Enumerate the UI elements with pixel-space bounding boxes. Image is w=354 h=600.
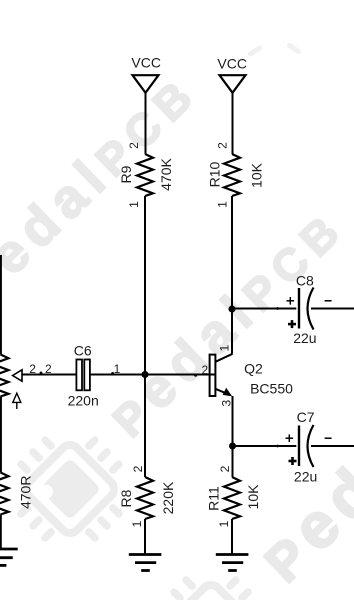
svg-text:2: 2 (131, 465, 145, 472)
capacitor C8 plus sign (287, 297, 295, 305)
svg-text:R10: R10 (206, 161, 222, 187)
wire VCC to R9 (145, 93, 147, 154)
resistor R9 body (137, 154, 153, 196)
svg-text:1: 1 (130, 520, 144, 527)
capacitor C8 minus sign (325, 300, 332, 302)
pin dot pot wiper (40, 372, 43, 375)
transistor Q2 emitter lead (215, 389, 229, 395)
capacitor C7 plus sign (286, 434, 294, 442)
wire 470R to ground (0, 515, 2, 550)
svg-text:2: 2 (218, 465, 232, 472)
capacitor C7 plus plate (298, 426, 300, 467)
capacitor C6 left plate (76, 360, 82, 391)
wire C7 row right (311, 445, 354, 447)
capacitor C7 curved plate (308, 425, 314, 467)
capacitor C8 curved plate (308, 288, 314, 330)
capacitor C7 minus sign (325, 437, 332, 439)
svg-text:R9: R9 (118, 165, 134, 183)
power symbol VCC (net 2) triangle (220, 75, 246, 93)
watermark stray dash (top right a) (247, 44, 263, 57)
svg-text:1: 1 (217, 520, 231, 527)
capacitor C8 bold plus (288, 320, 296, 328)
svg-text:2: 2 (202, 363, 209, 377)
svg-text:R8: R8 (118, 489, 134, 507)
svg-text:220K: 220K (160, 481, 176, 514)
capacitor C8 plus plate (298, 288, 300, 329)
svg-text:1: 1 (127, 201, 141, 208)
wire R11 to ground (231, 519, 233, 555)
watermark chip logo (bottom, partial) (147, 550, 290, 600)
pin dot C7 pin1 (276, 445, 279, 448)
svg-text:470R: 470R (18, 476, 34, 509)
resistor 470R body (0, 473, 9, 515)
watermark text PedalPCB (top) (0, 60, 210, 314)
wire node to R8 (144, 375, 146, 478)
wire pot to 470R (0, 397, 2, 473)
svg-text:Q2: Q2 (244, 361, 263, 377)
svg-text:1: 1 (114, 362, 121, 376)
capacitor C6 right plate (84, 360, 90, 391)
pin dot C6 pin1 (111, 372, 114, 375)
svg-text:10K: 10K (245, 484, 261, 510)
svg-text:C7: C7 (297, 409, 315, 425)
pin dot C8 pin1 (276, 307, 279, 310)
wire R8 to ground (144, 519, 146, 555)
junction node at emitter/C7 (229, 443, 236, 450)
svg-text:2: 2 (216, 142, 230, 149)
watermark text PedalPCB (bottom right) (246, 304, 354, 596)
resistor R10 body (224, 154, 240, 196)
svg-text:220n: 220n (68, 393, 99, 409)
power symbol VCC (net 1) triangle (133, 75, 159, 93)
wire C8 row left (232, 308, 296, 310)
wire C7 row left (233, 445, 297, 447)
ground symbol bottom left (0, 549, 18, 565)
svg-text:C8: C8 (296, 273, 314, 289)
resistor R8 body (137, 477, 153, 519)
svg-text:R11: R11 (206, 486, 222, 511)
svg-text:3: 3 (219, 400, 233, 407)
wire R10 to Q2 collector (231, 196, 233, 354)
wire R9 to node (base row) (144, 196, 146, 375)
pot rotation arrow stem (16, 402, 18, 409)
capacitor C7 bold plus (289, 457, 297, 465)
pot VOL body (0, 355, 9, 397)
transistor Q2 emitter arrowhead (223, 388, 233, 397)
pot VOL wiper arrow (13, 370, 22, 381)
watermark stray dash (top right b) (286, 42, 302, 55)
watermark text PedalPCB (middle) (97, 195, 354, 449)
svg-text:2: 2 (45, 362, 52, 376)
ground symbol under R8 (129, 555, 162, 571)
transistor Q2 collector lead (215, 354, 232, 362)
pot VOL wire top (0, 255, 2, 355)
svg-text:2: 2 (29, 362, 36, 376)
svg-text:22u: 22u (294, 469, 317, 485)
resistor R11 body (224, 477, 240, 519)
wire VCC to R10 (232, 93, 234, 154)
wire Q2 emitter down (232, 396, 234, 477)
pot rotation arrow (13, 393, 21, 402)
svg-text:1: 1 (216, 201, 230, 208)
svg-text:VCC: VCC (131, 55, 161, 71)
svg-text:1: 1 (217, 344, 231, 351)
svg-text:10K: 10K (248, 162, 264, 188)
svg-text:22u: 22u (293, 330, 316, 346)
wire C6 to node and Q2 base (90, 374, 215, 376)
junction node at collector/C8 (229, 306, 236, 313)
svg-text:BC550: BC550 (250, 381, 293, 397)
svg-text:470K: 470K (158, 157, 174, 190)
svg-text:VCC: VCC (217, 56, 247, 72)
wire pot wiper to C6 (22, 374, 76, 376)
ground symbol under R11 (216, 555, 249, 571)
svg-text:C6: C6 (74, 342, 92, 358)
junction node at R9/C6/base (142, 371, 149, 378)
wire C8 row right (311, 308, 354, 310)
svg-text:2: 2 (127, 142, 141, 149)
pin dot Q2 base (194, 374, 197, 377)
transistor Q2 base bar (210, 355, 216, 396)
